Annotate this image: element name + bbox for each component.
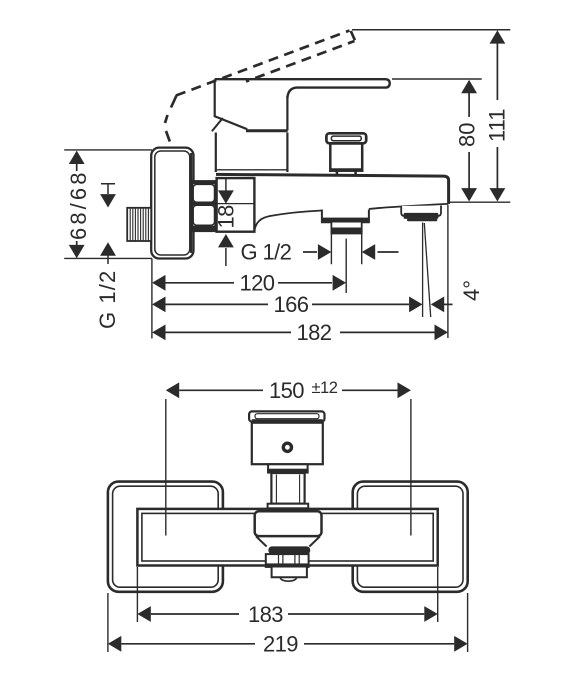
aerator dark band	[268, 546, 310, 554]
svg-text:182: 182	[297, 320, 332, 345]
S-union center lines over bar	[165, 481, 167, 536]
threaded pipe G1/2 (left)	[127, 208, 151, 241]
extension line spout bottom right	[449, 201, 510, 203]
dashed handle (raised position)	[165, 31, 355, 156]
extension lines for 183	[137, 567, 437, 622]
extension line spout right edge down	[447, 205, 449, 339]
G1/2 shower hose tube	[331, 223, 363, 234]
extension line escutcheon left edge down	[151, 258, 153, 338]
svg-text:183: 183	[248, 602, 283, 627]
extension lines for 150	[165, 399, 167, 536]
dimension 111	[485, 30, 510, 201]
svg-text:166: 166	[274, 292, 309, 317]
spout underside	[255, 211, 322, 230]
handle notch line	[212, 118, 223, 131]
handle body (front view)	[252, 419, 323, 464]
handle base step	[267, 464, 309, 473]
svg-text:68/68: 68/68	[66, 169, 91, 240]
handle top cap (front view)	[249, 411, 324, 421]
thread pointer dimension (left)	[100, 184, 116, 264]
spout bar top line and right edge	[216, 174, 449, 204]
cartridge block under handle	[216, 133, 288, 173]
dimension 68/68	[66, 151, 91, 259]
shoulders under housing	[256, 536, 320, 546]
dimension 219	[108, 632, 468, 657]
neck bottom flange	[268, 504, 309, 509]
spout nozzle (right outlet)	[401, 206, 441, 222]
extension line hose tube sides	[331, 234, 361, 264]
handle dot	[283, 443, 291, 451]
dimension 80	[455, 80, 480, 202]
svg-text:80: 80	[455, 123, 480, 147]
dimension 183	[137, 602, 437, 627]
cartridge neck (front view)	[271, 473, 304, 504]
svg-text:G 1/2: G 1/2	[95, 270, 120, 329]
mixer body bar (front view)	[137, 509, 437, 566]
extension line from dashed handle tip	[352, 29, 510, 31]
wall escutcheon (side view)	[151, 148, 193, 259]
extension line escutcheon bottom	[64, 257, 152, 259]
extension lines for 219	[108, 593, 468, 652]
water stream lines (4 deg)	[422, 223, 424, 318]
G 1/2 pointer arrow (under body)	[218, 234, 234, 266]
hose tube OD arrows	[303, 244, 399, 260]
svg-text:G 1/2: G 1/2	[241, 240, 292, 265]
valve body block	[217, 178, 255, 232]
svg-text:±12: ±12	[312, 379, 338, 397]
hose union nut	[266, 554, 309, 567]
svg-text:4°: 4°	[459, 280, 484, 301]
diverter housing (front view center block)	[255, 511, 322, 536]
center line hose tube	[345, 239, 347, 293]
shower outlet block under spout	[322, 210, 369, 223]
handle lever (solid)	[212, 79, 390, 131]
svg-text:219: 219	[263, 632, 298, 657]
dimension 150 +-12	[166, 378, 411, 403]
dimension 18	[214, 179, 239, 229]
svg-text:120: 120	[240, 271, 275, 296]
svg-text:111: 111	[485, 109, 510, 142]
svg-text:18: 18	[214, 205, 239, 229]
hose outlet stub	[272, 568, 307, 582]
dimension 120	[152, 271, 346, 296]
extension line escutcheon top	[64, 149, 152, 151]
dimension 166 + 4 deg arrows	[152, 292, 452, 317]
svg-text:150: 150	[269, 378, 304, 403]
left escutcheon (front view)	[108, 482, 223, 592]
hex nut	[192, 181, 215, 231]
right escutcheon (front view)	[353, 482, 468, 592]
dimension 182	[152, 320, 448, 345]
diverter knob on spout	[326, 133, 366, 175]
extension line from solid handle top	[392, 78, 482, 80]
